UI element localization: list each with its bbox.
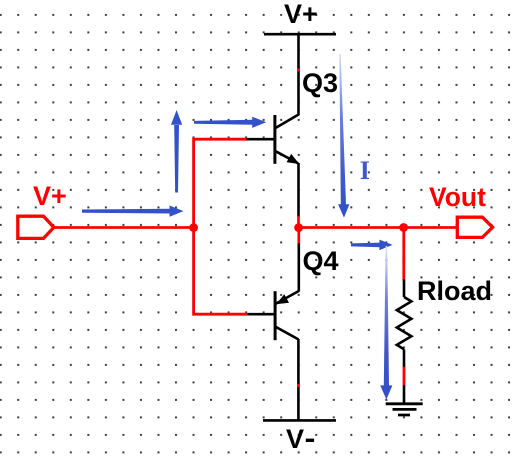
- svg-text:V+: V+: [33, 181, 67, 211]
- current arrow into Q3 base: [194, 117, 266, 128]
- red wire stub below output node: [297, 227, 300, 244]
- wire output node to Vout port: [299, 226, 458, 229]
- ground: [386, 404, 423, 415]
- input port V+: [18, 216, 54, 238]
- svg-text:Q4: Q4: [303, 246, 339, 276]
- current arrow up into Q3 base branch: [171, 110, 182, 193]
- red base bracket wire: [194, 139, 248, 314]
- red snap dot on collector wire: [297, 384, 300, 387]
- junction node at input: [189, 223, 198, 232]
- red snap dot on collector wire: [297, 68, 300, 71]
- svg-text:V: V: [286, 424, 304, 454]
- V+ power rail bar: [264, 33, 336, 36]
- current arrow along input wire: [82, 206, 184, 217]
- red wire stub above output node: [297, 216, 300, 228]
- svg-text:V+: V+: [284, 0, 318, 29]
- junction node output: [294, 223, 303, 232]
- transistor Q3: [247, 114, 299, 163]
- red wire resistor to ground: [403, 367, 406, 386]
- current arrow into Rload branch: [351, 240, 393, 251]
- svg-text:Vout: Vout: [429, 182, 486, 212]
- svg-text:I: I: [360, 156, 370, 185]
- wire Q3 collector to V+ rail: [297, 34, 300, 115]
- wire Rload node down to resistor: [402, 228, 405, 281]
- wire Q3 emitter down to output node: [297, 163, 300, 217]
- junction node at Rload: [399, 223, 408, 232]
- current arrow I down to output node: [338, 54, 349, 218]
- resistor Rload: [397, 279, 412, 367]
- V- power rail bar: [263, 419, 336, 422]
- wire into ground symbol: [403, 385, 406, 403]
- wire Q4 emitter up to output node: [297, 244, 300, 292]
- svg-text:Q3: Q3: [302, 68, 338, 98]
- svg-text:Rload: Rload: [417, 276, 492, 306]
- wire Q4 collector down to V- rail: [297, 339, 300, 420]
- wire input port to base node: [54, 226, 194, 229]
- transistor Q4: [248, 291, 299, 340]
- current arrow down through Rload: [380, 246, 392, 399]
- Vout port: [457, 217, 492, 237]
